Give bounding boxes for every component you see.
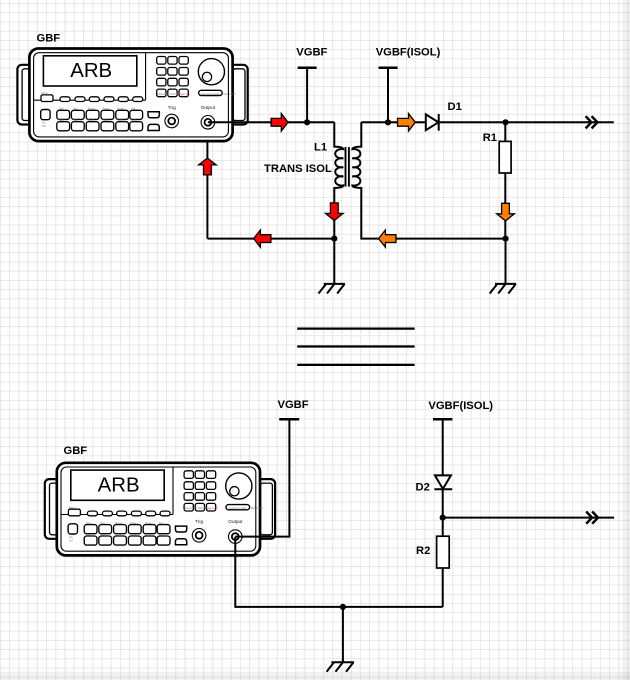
output chevrons (bottom) [586, 512, 598, 524]
svg-text:D2: D2 [415, 482, 429, 494]
ground (primary side) [319, 284, 345, 294]
wire: GBF1 output to transformer primary [208, 121, 334, 123]
ground (bottom) [327, 662, 354, 671]
wire: return from GBF1 output down (under device) [206, 128, 208, 239]
transformer core [346, 147, 349, 187]
node primary/ground junction [331, 236, 337, 242]
output chevrons (top) [586, 116, 598, 128]
arrow orange right (secondary current) [398, 114, 416, 132]
arrow red left (return current) [254, 230, 271, 247]
power rail VGBF(ISOL) (bottom) [433, 418, 452, 421]
svg-text:D1: D1 [448, 101, 462, 113]
function generator GBF (top) [17, 49, 247, 142]
wire: GBF2 output ground return [235, 537, 442, 607]
svg-text:TRANS ISOL: TRANS ISOL [264, 163, 332, 175]
svg-text:R2: R2 [416, 545, 430, 557]
wire: R1 junction to ground [505, 239, 507, 284]
diode D1 [426, 114, 439, 130]
transformer L1 secondary winding [352, 122, 505, 238]
power rail VGBF (bottom) [279, 418, 299, 421]
svg-text:GBF: GBF [64, 445, 88, 457]
power rail VGBF (top) [298, 66, 317, 69]
node bottom ground junction [340, 604, 346, 610]
wire: bottom junction to ground [342, 607, 344, 662]
separator line 2 [297, 345, 414, 347]
separator line 1 [297, 328, 414, 330]
arrow red up (return current) [199, 158, 217, 175]
svg-text:L1: L1 [314, 142, 327, 154]
svg-text:GBF: GBF [37, 33, 61, 45]
node D2/R2 junction [440, 515, 446, 521]
wire: transformer primary bottom return [207, 238, 334, 240]
svg-text:VGBF(ISOL): VGBF(ISOL) [428, 400, 493, 412]
arrow orange left (secondary return) [379, 230, 396, 247]
wire: GBF2 output to VGBF rail [235, 419, 289, 536]
svg-text:VGBF: VGBF [296, 47, 327, 59]
arrow red right (output current) [271, 114, 288, 132]
transformer L1 primary winding [334, 122, 343, 238]
arrow orange down (through R1) [497, 203, 515, 221]
wire: D2 to R2 [442, 489, 444, 536]
resistor R2 [437, 536, 450, 568]
wire: primary junction to ground [333, 239, 335, 284]
svg-text:VGBF(ISOL): VGBF(ISOL) [376, 47, 441, 59]
svg-text:R1: R1 [483, 132, 497, 144]
svg-text:VGBF: VGBF [278, 399, 309, 411]
separator line 3 [297, 364, 414, 366]
wire: R2 to bottom rail [442, 568, 444, 607]
arrow red down (primary to ground) [326, 203, 344, 221]
power rail VGBF(ISOL) (top) [379, 66, 398, 69]
node R1/secondary return [502, 236, 508, 242]
wire: secondary top to output [361, 121, 614, 123]
diode D2 [435, 475, 451, 489]
node VGBF [304, 119, 310, 125]
function generator GBF (bottom) [45, 463, 275, 556]
wire: output tap (bottom) [443, 517, 614, 519]
node D1 output [502, 119, 508, 125]
ground (secondary side) [490, 284, 516, 294]
node VGBF(ISOL) [385, 119, 391, 125]
resistor R1 [504, 122, 506, 238]
